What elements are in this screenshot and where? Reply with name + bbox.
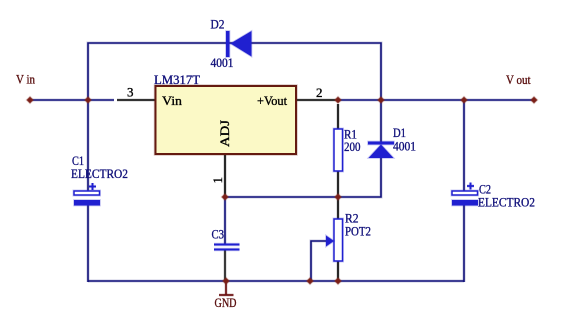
wire C3 top stub bbox=[223, 197, 226, 244]
wire C1 top stub bbox=[86, 100, 89, 191]
svg-text:1: 1 bbox=[210, 177, 225, 184]
resistor R1 body bbox=[334, 129, 343, 171]
svg-text:200: 200 bbox=[344, 139, 361, 154]
svg-text:LM317T: LM317T bbox=[154, 72, 200, 87]
D1 value label 4001 bbox=[393, 139, 416, 154]
junction node ADJ/C3 bbox=[222, 194, 229, 201]
diode D2 symbol bbox=[226, 31, 252, 57]
svg-text:V out: V out bbox=[506, 72, 531, 87]
svg-text:4001: 4001 bbox=[393, 139, 416, 154]
wire D1 cathode up to output net bbox=[379, 100, 382, 142]
power port V in bbox=[16, 72, 35, 87]
pin wires of R2 bbox=[336, 199, 339, 280]
wire top loop from input node up over D2 to output node bbox=[88, 43, 381, 101]
svg-text:4001: 4001 bbox=[211, 55, 234, 70]
svg-text:V in: V in bbox=[16, 72, 35, 87]
ground symbol GND bbox=[215, 281, 237, 310]
D1 designator label bbox=[393, 125, 406, 140]
power port V out bbox=[506, 72, 531, 87]
capacitor C3 symbol bbox=[214, 245, 240, 250]
svg-text:3: 3 bbox=[127, 85, 134, 100]
R2 designator label bbox=[345, 211, 359, 226]
pin number 2 bbox=[316, 85, 323, 100]
svg-text:Vin: Vin bbox=[162, 93, 183, 108]
diode D1 symbol bbox=[368, 142, 394, 159]
C1 designator label bbox=[72, 153, 84, 168]
R1 value label 200 bbox=[344, 139, 361, 154]
wire main input net Vin terminal to pin3 bbox=[29, 98, 114, 101]
svg-text:C3: C3 bbox=[212, 227, 225, 242]
wire C2 bottom stub bbox=[462, 205, 465, 282]
wire main output net pin2 junction to Vout terminal bbox=[338, 98, 535, 101]
capacitor C2 electrolytic symbol bbox=[452, 183, 478, 206]
pin wires of R1 bbox=[336, 104, 339, 196]
svg-text:POT2: POT2 bbox=[345, 224, 371, 239]
pin number 1 (rotated) bbox=[210, 177, 225, 184]
R1 designator label bbox=[344, 127, 357, 142]
pin 2 wire of U1 bbox=[296, 98, 337, 101]
junction node input/C1 bbox=[85, 97, 92, 104]
junction node R2/ground rail bbox=[335, 278, 342, 285]
D2 value label 4001 bbox=[211, 55, 234, 70]
R2 value label POT2 bbox=[345, 224, 371, 239]
junction node D1/top loop bbox=[378, 97, 385, 104]
junction node C2 bbox=[461, 97, 468, 104]
R2 wiper arrowhead bbox=[326, 236, 334, 247]
svg-text:ADJ: ADJ bbox=[217, 120, 232, 147]
svg-text:ELECTRO2: ELECTRO2 bbox=[71, 166, 128, 181]
wire C3 bottom stub bbox=[223, 250, 226, 281]
wire D1 anode down and left along ADJ row bbox=[225, 158, 381, 197]
potentiometer R2 body bbox=[334, 219, 343, 261]
pin number 3 bbox=[127, 85, 134, 100]
terminal node V in bbox=[27, 97, 34, 104]
junction node C3/GND bbox=[223, 278, 230, 285]
U1 pin name Vin bbox=[162, 93, 183, 108]
svg-text:2: 2 bbox=[316, 85, 323, 100]
pin 1 wire of U1 (ADJ) bbox=[223, 154, 226, 196]
U1 pin name ADJ (rotated) bbox=[217, 120, 232, 147]
junction node pin2/R1 bbox=[335, 97, 342, 104]
C2 value label ELECTRO2 bbox=[478, 195, 535, 210]
IC U1 LM317T regulator body bbox=[156, 86, 297, 154]
C2 designator label bbox=[479, 182, 491, 197]
junction node wiper/ground rail bbox=[307, 278, 314, 285]
D2 designator label bbox=[211, 17, 225, 32]
terminal node V out bbox=[531, 97, 538, 104]
junction node R1/R2/D1 bbox=[335, 194, 342, 201]
svg-text:GND: GND bbox=[215, 295, 237, 310]
U1 pin name +Vout bbox=[257, 93, 287, 108]
wire C1 bottom stub bbox=[86, 205, 89, 282]
svg-text:D2: D2 bbox=[211, 17, 225, 32]
wire R2 wiper to ground rail bbox=[311, 241, 327, 281]
wire C2 top stub bbox=[462, 100, 465, 191]
C3 designator label bbox=[212, 227, 225, 242]
pin 3 wire of U1 bbox=[117, 98, 156, 101]
U1 designator label LM317T bbox=[154, 72, 200, 87]
wire bottom ground rail bbox=[88, 279, 464, 282]
capacitor C1 electrolytic symbol bbox=[74, 183, 100, 206]
svg-text:ELECTRO2: ELECTRO2 bbox=[478, 195, 535, 210]
svg-text:+Vout: +Vout bbox=[257, 93, 287, 108]
C1 value label ELECTRO2 bbox=[71, 166, 128, 181]
